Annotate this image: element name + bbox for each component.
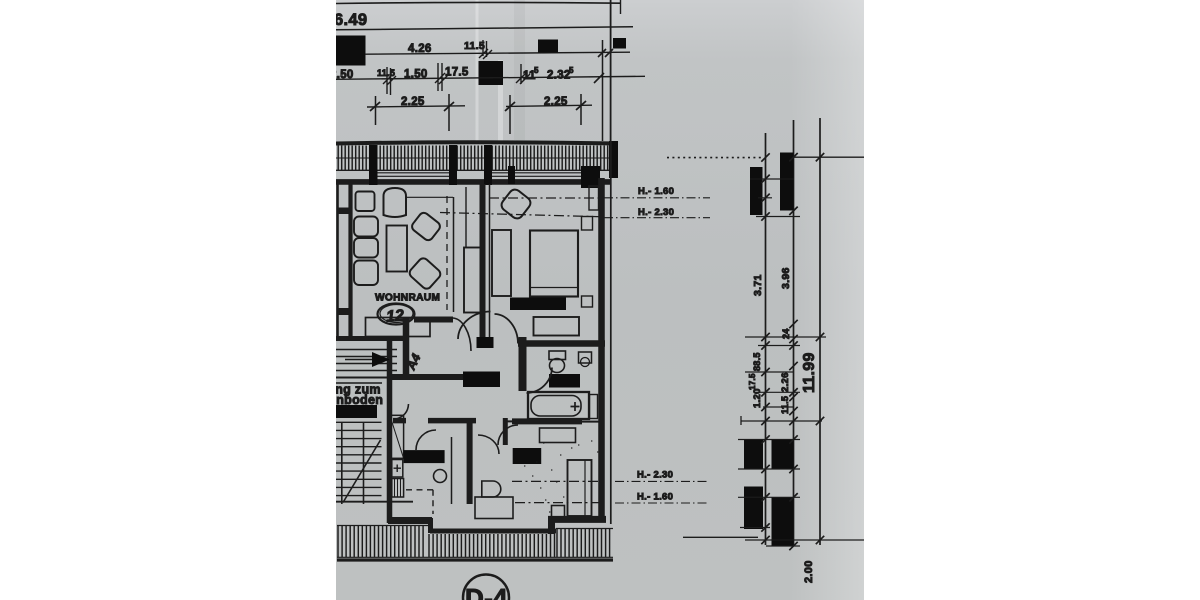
- roof slope dashed vertical: [446, 196, 448, 310]
- redaction col1 mid: [744, 439, 763, 469]
- height dash-dot 2.30 bottom in plan: [512, 480, 604, 482]
- svg-text:H.- 2.30: H.- 2.30: [638, 207, 674, 218]
- small basin: [579, 352, 592, 363]
- roof band middle line: [336, 157, 612, 159]
- sofa cushion 3: [354, 238, 378, 258]
- wardrobe childroom: [568, 460, 592, 516]
- south wall jog a: [428, 518, 433, 533]
- svg-text:17.5: 17.5: [445, 67, 469, 79]
- corridor wall corner vertical: [503, 418, 508, 445]
- bedroom wardrobe left: [492, 230, 511, 296]
- vertical dim line 3: [819, 118, 821, 545]
- redaction box bedroom: [510, 298, 566, 311]
- partition wall foot: [477, 337, 494, 348]
- row3 tick at 521: [516, 64, 530, 84]
- roof band hatching: [338, 146, 608, 171]
- hall south wall: [392, 374, 463, 380]
- right south wall: [548, 516, 606, 523]
- stair landing line: [336, 377, 392, 379]
- coffee table: [387, 226, 408, 272]
- svg-text:6.49: 6.49: [334, 11, 367, 29]
- lower stair treads: [336, 422, 382, 495]
- dim line 4.26: [365, 52, 630, 54]
- door arc childroom a: [478, 435, 499, 454]
- bottom band hatching right: [557, 529, 610, 558]
- stair bottom line: [336, 501, 413, 503]
- dash-dot line H1.60: [604, 197, 710, 199]
- wall corner block top-right: [581, 166, 600, 188]
- roof band bottom line: [336, 169, 612, 171]
- dishwasher hatched: [392, 479, 404, 498]
- ticks near right of 4.26 line: [598, 49, 613, 57]
- svg-text:17.5: 17.5: [748, 373, 757, 390]
- stair direction arrow: [345, 359, 372, 361]
- door arc to west room: [458, 312, 491, 340]
- toilet: [549, 351, 566, 360]
- roof overhang band top line: [336, 142, 618, 143]
- dash-dot line H2.30: [604, 217, 710, 219]
- svg-text:11.5: 11.5: [780, 396, 790, 414]
- shaft edge line: [465, 187, 467, 247]
- redaction box stair: [336, 405, 377, 418]
- redaction box corridor bottom: [404, 450, 445, 463]
- svg-text:11.5: 11.5: [377, 68, 395, 78]
- row3 tick at 599: [594, 73, 604, 83]
- scan speckles: [524, 441, 598, 520]
- hall west wall: [403, 318, 410, 378]
- dim line 2.25 left: [367, 106, 465, 107]
- door arc corridor west: [396, 404, 409, 419]
- redaction box childroom: [513, 448, 542, 464]
- row3 double tick at 388: [383, 67, 396, 95]
- door arc to bedroom: [495, 314, 519, 344]
- row3 double tick at 440: [435, 63, 449, 91]
- svg-text:5: 5: [569, 66, 574, 75]
- svg-text:3.96: 3.96: [780, 267, 792, 289]
- redaction box top-left: [336, 36, 366, 66]
- height dash-dot line 1.60 in plan: [489, 197, 604, 199]
- right exterior wall: [598, 178, 605, 521]
- paper crease light: [476, 0, 479, 142]
- roof band right cap: [609, 141, 618, 178]
- bottom band hatching middle: [429, 534, 555, 557]
- svg-text:WOHNRAUM: WOHNRAUM: [375, 293, 440, 304]
- south wall jog b: [548, 517, 555, 534]
- shelf childroom: [540, 428, 576, 443]
- redaction box small a: [538, 40, 558, 53]
- svg-text:88.5: 88.5: [752, 352, 762, 371]
- wall pier b: [449, 145, 457, 185]
- ledge right of tub: [590, 395, 598, 419]
- long line y540 to edge: [745, 539, 864, 541]
- top paper edge line: [336, 2, 620, 3]
- redaction col1 top: [750, 167, 763, 215]
- svg-text:3.71: 3.71: [752, 274, 764, 296]
- sofa cushion 1: [356, 192, 375, 212]
- redaction col2 low: [772, 498, 794, 547]
- knee wall line: [406, 196, 453, 198]
- wall tie mark b: [338, 308, 352, 315]
- redaction box mid: [479, 61, 504, 85]
- radiator niche a: [582, 217, 593, 231]
- slash ticks right column: [761, 153, 824, 550]
- slashes row4: [370, 101, 586, 111]
- dotted ridge line: [667, 157, 763, 159]
- stair lower border line: [336, 382, 382, 384]
- dim line row3: [336, 76, 645, 79]
- radiator niche b: [582, 296, 593, 307]
- svg-text:11.5: 11.5: [464, 40, 485, 52]
- radiator right wall upper: [589, 186, 599, 210]
- svg-text:H.- 2.30: H.- 2.30: [637, 470, 673, 481]
- bedroom partition wall face line: [489, 184, 491, 337]
- svg-text:1.20: 1.20: [752, 388, 763, 408]
- redaction box small b: [613, 38, 626, 49]
- stove: [392, 460, 403, 478]
- armchair top: [384, 188, 407, 217]
- dim line 2.25 right: [506, 105, 592, 106]
- dim line under 6.49: [336, 27, 633, 30]
- middle south wall: [430, 529, 556, 534]
- kitchen east partition: [451, 437, 453, 504]
- svg-text:12: 12: [386, 307, 405, 325]
- door arc childroom b: [498, 425, 518, 445]
- living room south wall: [336, 336, 404, 341]
- height dash-dot 1.60 bottom in plan: [515, 502, 604, 504]
- kitchen south wall: [388, 517, 432, 524]
- hall north wall block: [414, 317, 453, 323]
- svg-text:H.- 1.60: H.- 1.60: [637, 492, 673, 503]
- bathtub: [528, 392, 589, 419]
- sideboard below living room: [366, 318, 431, 337]
- kitchen counter: [390, 415, 404, 458]
- kitchen sink circle: [434, 470, 447, 483]
- svg-text:2.26: 2.26: [780, 372, 791, 392]
- door arc hall-west: [452, 318, 471, 351]
- vertical ticks row4: [376, 94, 582, 134]
- lower stair diagonal: [343, 440, 381, 503]
- bedroom partition wall: [480, 184, 486, 337]
- bathroom south wall: [512, 418, 582, 424]
- dash-dot line bottom b: [615, 502, 708, 504]
- childroom west wall: [467, 420, 473, 504]
- connector lines right column: [738, 179, 826, 546]
- sofa cushion 4: [354, 261, 378, 286]
- bed: [530, 231, 578, 297]
- paper shadow smudge: [514, 0, 525, 140]
- right outer thin line: [610, 141, 612, 524]
- chimney block: [464, 248, 481, 313]
- svg-text:2.32: 2.32: [547, 70, 571, 82]
- upper stair treads: [336, 350, 397, 371]
- right wall extension lines into dim area: [610, 0, 612, 141]
- redaction col2 mid: [772, 439, 794, 469]
- wall stub at corridor west: [393, 418, 406, 424]
- top exterior wall: [336, 179, 610, 185]
- door arc kitchen: [416, 430, 436, 450]
- living room west wall: [348, 182, 352, 339]
- wall pier a: [369, 145, 378, 185]
- svg-text:H.- 1.60: H.- 1.60: [638, 186, 674, 197]
- bedroom window glazing: [492, 173, 581, 177]
- bottom band hatching left: [338, 526, 423, 558]
- ridge line right solid: [793, 156, 864, 158]
- chest below bed: [534, 317, 580, 336]
- wall pier d: [508, 166, 515, 184]
- height dash-dot line 2.30 in plan: [440, 213, 604, 217]
- redaction col2 top: [780, 153, 794, 211]
- stairwell east wall: [387, 339, 393, 523]
- svg-text:D-4: D-4: [465, 583, 508, 600]
- vertical tick small y420: [740, 416, 742, 425]
- chair tilted 1: [410, 211, 442, 242]
- door arc bathroom: [527, 368, 553, 394]
- redaction box hall: [463, 372, 500, 388]
- dash-dot line bottom a: [615, 480, 708, 482]
- bedroom tilted chair: [499, 187, 533, 221]
- corridor north wall right part: [428, 418, 476, 424]
- bathroom west wall: [519, 337, 527, 391]
- svg-text:2.00: 2.00: [803, 560, 815, 583]
- washbasin childroom: [482, 481, 501, 497]
- room number oval: [378, 304, 415, 325]
- D-4 drawing label circle: [463, 575, 509, 600]
- left exterior wall line: [336, 182, 339, 341]
- kitchen dashed planned wall: [406, 490, 433, 514]
- vertical dim line 2: [793, 120, 795, 546]
- sofa cushion 2: [354, 217, 378, 237]
- thin line y537: [683, 536, 758, 538]
- wall tie mark a: [338, 208, 352, 215]
- svg-text:enboden: enboden: [329, 393, 383, 407]
- svg-text:5: 5: [534, 66, 539, 75]
- scanned paper sheet: [336, 0, 864, 600]
- svg-text:11.99: 11.99: [801, 352, 818, 393]
- bedroom south wall: [518, 340, 605, 347]
- chair tilted 2: [408, 256, 443, 290]
- living room window glazing: [377, 173, 449, 177]
- desk childroom: [475, 497, 513, 519]
- living room east partition: [453, 197, 455, 312]
- lower stair rails: [342, 422, 364, 504]
- redaction box bathroom: [549, 374, 580, 388]
- bottom band bottom line: [337, 556, 613, 558]
- night stand: [552, 506, 565, 518]
- redaction col1 low: [744, 487, 763, 530]
- vertical dim line 1: [765, 133, 767, 545]
- wall pier c: [484, 145, 492, 185]
- tick pair at 484: [479, 40, 492, 59]
